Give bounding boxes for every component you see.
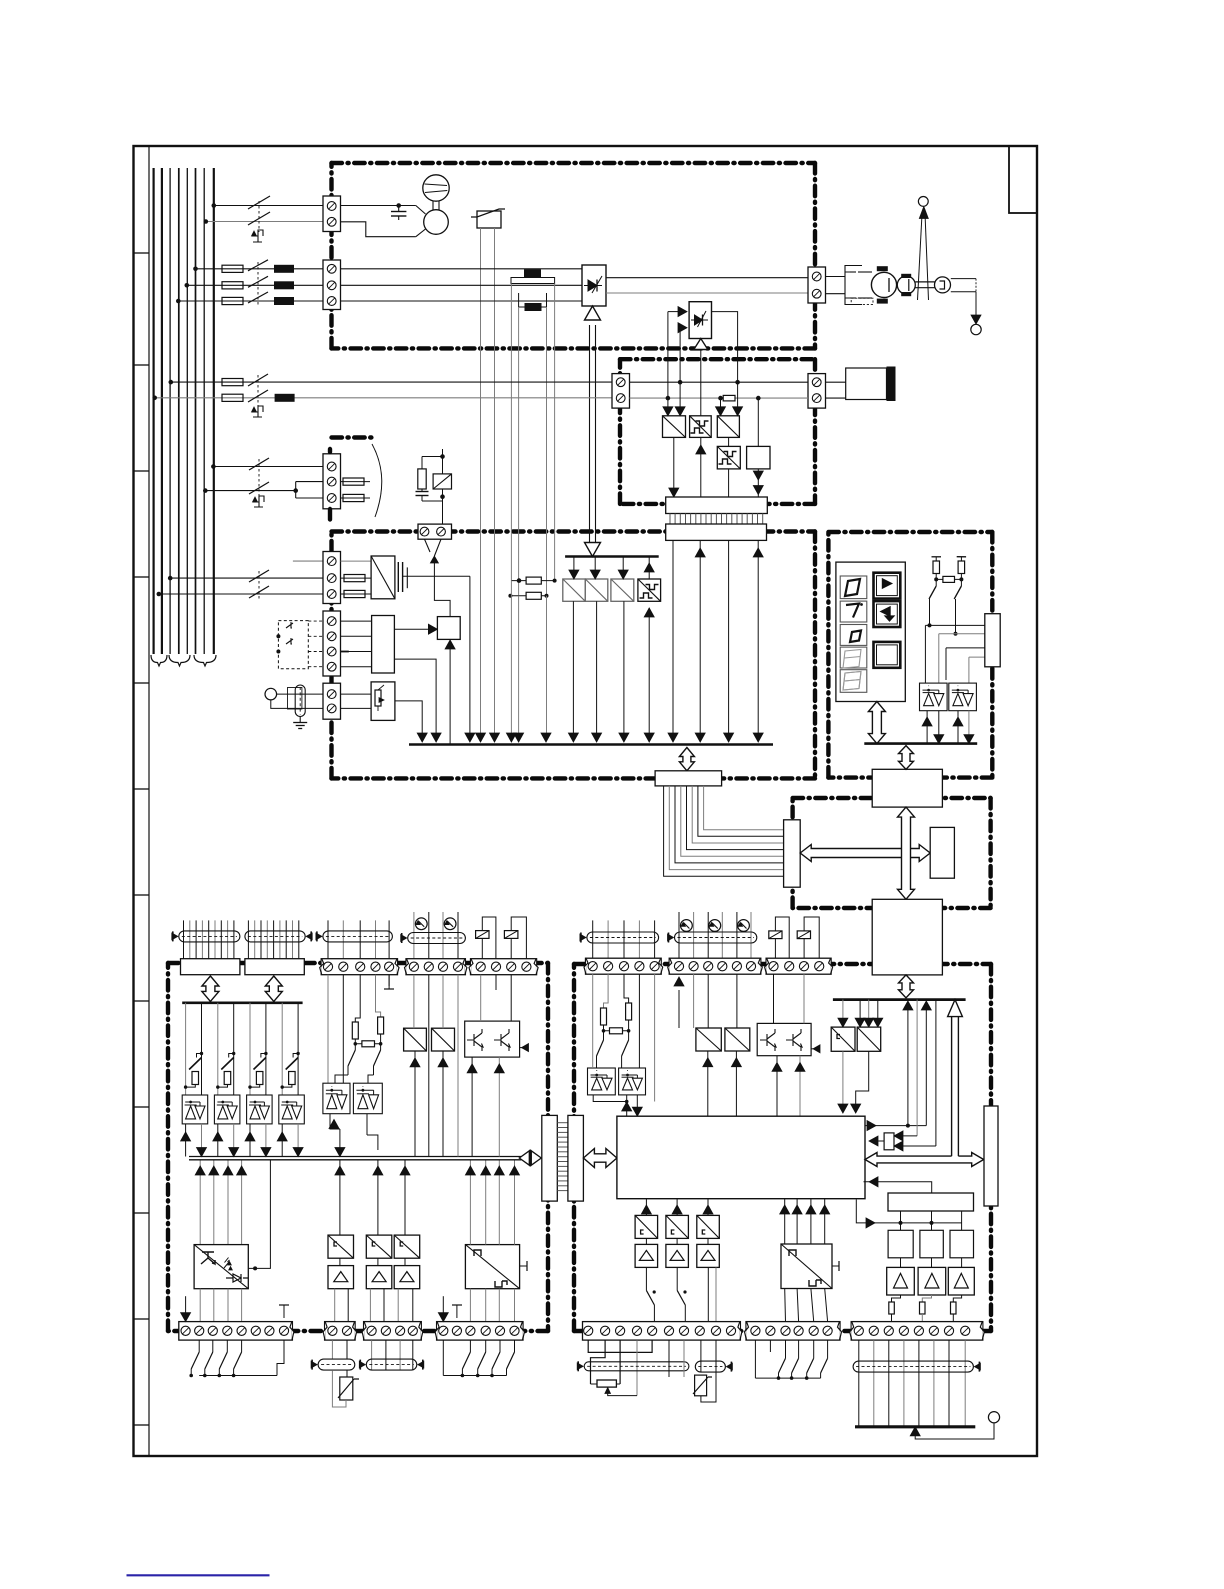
varistor strip G [668,1340,670,1377]
main contactor contacts [248,260,268,271]
wire control transformer 1 [293,560,323,562]
arrow CPU to option connector [865,1153,984,1167]
terminal strip relay G [766,958,831,974]
relay driver G1 [635,1215,658,1238]
contrast resistor 1 [935,557,937,561]
field rectifier output wire [712,312,738,383]
interface connector K1 [655,771,722,786]
terminal strip analog G [669,958,761,974]
ribbon connector upper [666,497,768,514]
gate driver block 1 [563,579,586,601]
board connector K4 [568,1115,584,1201]
transistor G wires [773,974,775,1023]
pulse channel F2 [377,1160,379,1235]
contact fan supply [248,205,270,207]
watchdog monitor wires [916,1000,918,1136]
wires to reference block [341,693,372,695]
contacts below PWM strip [469,1340,471,1352]
aux relay coil [433,474,451,489]
pulse channel F3 [404,1160,406,1235]
fan-out wires K1 to serial [664,786,784,876]
enclosure box C control section [332,529,816,533]
binary output channel 2 [217,1003,219,1095]
opto RS485 G2 [619,1068,646,1095]
contrast resistor mid [936,578,961,580]
ground rail G [855,1425,975,1428]
frequency input lines [199,1160,201,1245]
control transformer TR1 [371,556,395,599]
voltage sense lines to divider [510,284,512,581]
wire fan supply L2 [206,221,323,223]
meters G [681,920,693,932]
ground shield [299,717,301,723]
fan impeller symbol [423,175,449,201]
contrast resistor 2 [960,557,962,561]
keypad opto 2 [949,683,977,711]
field supply rectifier U2 [689,302,711,339]
enclosure box F terminal board [168,961,548,965]
line reactors L1-L3 [274,265,294,273]
wires digital inputs [341,620,372,622]
terminator switches [354,1044,356,1050]
bus arrow K2 to M1 [800,845,930,862]
wires potentiometer [277,693,323,695]
F bus diamond arrows [529,1150,531,1167]
stub T PWM strip [456,1305,458,1318]
speed setpoint circle [918,197,928,207]
enclosure box G terminal board 2 [574,962,991,966]
terminal strip encoder G [586,958,662,974]
CPU status lines to rail [864,1125,927,1127]
wires GS1 into optos [592,974,594,1068]
terminal block mains input [323,260,341,310]
wire armature DC+ [606,277,808,279]
wire fan supply L1 [214,205,323,207]
rail-fed driver box 1 [842,1000,844,1020]
connector binary in 2 [245,959,304,975]
CPU main block [617,1116,865,1199]
keypad panel outline [836,562,905,701]
relay loops G [775,917,789,958]
analog driver G1 [696,1028,721,1051]
divider resistor R2 [510,595,546,597]
shaft tacho-encoder [915,281,934,283]
shield below pulse aux [371,1340,373,1370]
wire field L1 [171,381,612,383]
thermostat wire to ADC [434,563,450,617]
option cable curve [372,444,382,517]
wire to fan capacitor [341,205,416,207]
thermal release glyph [252,230,263,242]
thyristor rectifier U1 [582,265,606,306]
terminal block aux [323,454,341,509]
supply bus vertical lines [153,168,155,654]
panel interface block E1 [872,769,942,807]
drawing border frame [134,146,1038,1456]
contacts below relay strip [754,1340,756,1378]
binary output channel 1 [185,1003,187,1095]
terminal strip analog out [406,959,465,975]
driver outputs to CPU [842,1051,844,1106]
terminal block analog ref [323,683,341,719]
opto RS485 F 1 [323,1083,350,1114]
opto driver field 3 [717,416,739,438]
board ribbon hatch [557,1122,568,1124]
terminal strip PWM out [437,1322,523,1341]
current sensor DC bus 1 [524,269,541,277]
serial interface block K2 [784,820,801,887]
wire aux 2 [205,490,295,492]
aux split wire [293,488,298,493]
enclosure box B field section [620,357,815,361]
PWM output block G [781,1244,832,1289]
terminal strip relay F [471,959,537,975]
option dash-dot stub [332,435,377,439]
transistor pair box [465,1021,520,1057]
footer hyperlink underline [127,1574,270,1576]
terminal strip motor pot [583,1322,741,1341]
field thyristor gate arrow [700,349,702,416]
opto G outputs [593,1095,627,1102]
wires mains 3-phase [196,268,324,270]
current sensor DC bus 2 [525,303,542,311]
arrow into PWM strip [442,1296,444,1315]
tacho generator [897,276,915,294]
gate driver outputs to rail [572,601,574,735]
opto RS485 F 2 [353,1083,382,1114]
transformer output to rail [469,576,471,735]
analog driver G2 [725,1028,750,1051]
PWM block wires F [469,1160,471,1245]
terminal strip analog multi [321,959,397,975]
U7 output wire [248,1160,270,1269]
potentiometer knob [265,688,277,700]
dashed wires switch box [308,620,323,622]
terminal block field output [808,374,826,409]
keypad button enter [874,642,901,668]
PWM G wires [784,1199,786,1244]
enclosure box A power section [332,161,816,165]
arrow E1 to E2 [898,807,915,899]
relay driver G3 [697,1215,720,1238]
wires field optos to ribbon [673,437,675,490]
fuses aux out [341,481,371,483]
meters analog outputs [415,918,427,930]
keypad opto 1 [920,683,948,711]
RS485 terminator G [604,974,609,1008]
opto driver field 1 [663,416,686,438]
wires GS2 to CPU [693,974,695,1028]
seven segment digits [840,576,867,599]
field rectifier feed wires [667,312,669,399]
wires MOV1 to control rail [480,228,482,735]
terminal strip supply G [851,1322,983,1341]
analog driver 1 [404,1028,427,1051]
keypad button select [874,601,901,627]
transformer secondary stub [406,567,408,588]
G rail [833,998,966,1001]
relay contact symbols F [476,931,489,939]
left I/O rail [182,1001,302,1004]
binary output channel 3 [249,1003,251,1095]
field wires inside [630,381,809,383]
keypad opto arrows [926,711,928,744]
capacitor fan [398,206,400,212]
shield below pulse in [331,1340,333,1359]
arrow keypad rail to E1 [899,746,914,770]
reference source block U6 [371,682,395,721]
divider resistor R1 [511,580,554,582]
terminal strip relay out G [746,1322,840,1341]
contacts field [248,374,268,386]
ground reference circle [988,1412,999,1423]
encoder feedback circle [971,324,981,334]
analog out shield [413,912,415,959]
relay contacts below [425,539,431,552]
terminal block field input [612,374,630,409]
connector binary in 1 [181,959,240,975]
register block R1 [888,1193,974,1211]
arrow E2 to G rail [899,975,914,998]
rail-fed driver box 2 [859,1000,861,1020]
gate driver block 3 [611,579,634,601]
frequency input opto U7 [194,1245,248,1289]
motor pot wiring [588,1340,652,1352]
encoder cable box [951,278,976,280]
relay loops F [482,917,496,959]
frame margin tick marks [134,252,150,254]
sense lines to control rail [510,581,512,735]
pulse encoder [935,277,951,293]
gate drive shaft to U1 [589,325,591,547]
frame top-right reference box [1009,146,1037,213]
keypad wiring to connector [929,599,931,625]
terminal block armature [808,267,826,303]
arrow K4 to CPU [583,1149,617,1168]
pulse block field [717,446,740,469]
keypad button up-down [874,573,901,599]
relay driver squares [888,1230,913,1258]
opto driver field 2 [690,416,712,438]
wires ribbon to control rail [672,540,674,735]
contrast switches [929,586,936,599]
control board rail [409,743,773,746]
stub T strip1 [283,1305,285,1318]
shielded cable binary in 1 [183,920,185,958]
wire U4 lower output [394,659,436,735]
motor field winding [826,381,846,383]
transistor pair box G [757,1023,811,1055]
field reactor [275,394,295,402]
terminal block relay [418,524,452,539]
arrow panel to keypad rail [868,702,885,744]
wire field L2 [155,397,612,399]
digital input block U4 [372,616,395,674]
switch box dashed [278,621,308,669]
motor armature M [871,272,896,297]
wire aux 1 [213,466,323,468]
fuses F1 F2 F3 [222,265,243,272]
aux RC snubber resistor [422,456,443,458]
motor terminal bracket [826,276,846,278]
wires to transformer [341,560,372,562]
enclosure box E comm [793,796,991,800]
gate rail arrows [573,557,575,573]
terminal block transformer [323,552,341,604]
analog driver wires [413,975,415,1028]
terminal block fan supply [323,196,341,232]
fan motor circle [424,210,449,235]
binary output channel 4 [281,1003,283,1095]
frame left margin column [148,146,150,1456]
field gate vertical wires [667,398,669,409]
fuses field [222,379,243,386]
reference output to rail [395,701,422,735]
varistor pulse in [346,1370,348,1377]
aux RC capacitor [421,489,423,492]
gate pulse block 4 [638,579,661,601]
sync block field [747,446,770,469]
communication processor E2 [872,899,942,975]
memory block M1 [930,827,954,878]
encoder feedback wire [975,292,977,318]
wire U4 to ADC [394,628,431,630]
driver G contacts [645,1267,647,1290]
arrows connectors to F rail [202,976,219,1001]
option connector K6 [984,1106,998,1206]
shield potentiometer cable [288,688,302,710]
terminal strip pulse aux [364,1322,422,1341]
ribbon cable hatch [669,514,671,525]
contacts below binary outputs [198,1340,200,1352]
analog driver 2 [432,1028,455,1051]
relay driver wires [900,1211,902,1230]
opto RS485 G1 [588,1068,616,1095]
relay driver G2 [666,1215,689,1238]
terminal strip binary outputs [179,1322,293,1341]
bus group braces [151,655,167,666]
shielded cable binary in 2 [247,920,249,958]
terminal block digital inputs [323,611,341,676]
arrow branch to rail [952,1150,959,1159]
pulse channel F1 [339,1160,341,1235]
transistor pair wires [480,975,482,1021]
wire control transformer 3 [159,593,323,595]
R1 feedback line [864,1182,932,1193]
arrow into strip 1 [185,1296,187,1315]
U7 to terminal wires [199,1289,201,1322]
keypad rail [864,742,977,745]
enclosure box D keypad [828,530,992,534]
arrow under strip G2 [678,990,680,1010]
analog out cable shield [327,920,329,958]
keypad connector K5 [985,614,1000,667]
watchdog connector K7 [884,1133,894,1150]
wire control transformer 2 [170,577,323,579]
board connector K3 [542,1115,558,1201]
resistor field sense [723,395,735,401]
shield analog G [678,912,680,958]
F data bus double line [189,1156,521,1158]
PWM output block F [465,1245,519,1289]
motor potentiometer [591,1383,598,1385]
stub below analog strip [388,975,390,986]
RS485 terminator F [327,975,329,1083]
supply G wires to ground rail [858,1340,860,1426]
relay tri boxes [887,1267,915,1295]
opto outputs to bus [330,1114,340,1129]
varistor MOV1 [477,211,501,228]
wire armature DC- [606,292,808,294]
gate distribution rail [565,555,659,558]
wire rail to ADC [449,646,451,745]
wire fan return [341,222,416,237]
relay contacts G [769,931,782,939]
analog driver G wires [707,974,709,1028]
fan motor lead-in [416,206,426,215]
rail to interface connector arrow [679,748,694,771]
relay series resistors [892,1295,901,1302]
relay driver feed line [856,1200,961,1223]
ribbon connector lower [666,524,767,540]
wires mains to rectifier [341,268,583,270]
gate driver block 2 [585,579,608,601]
shield encoder cable G [592,920,594,958]
terminal strip pulse in [325,1322,356,1341]
speed feedback arrow [918,216,922,300]
ADC block U5 [437,617,460,640]
